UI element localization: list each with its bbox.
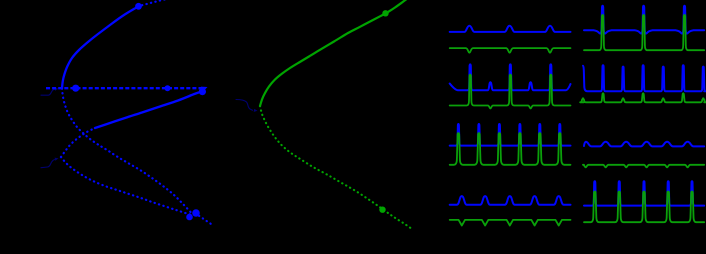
left panel: lower fold lower arm (dotted) — [61, 157, 192, 215]
trace panel row4 right: blue trace with tall narrow spikes — [584, 181, 704, 205]
left panel: marker at end of rising line — [199, 88, 206, 95]
left panel: bottom marker (right of pair) — [192, 209, 200, 217]
left panel: squiggle annotation arrow to lower fold — [41, 160, 55, 168]
left panel: dotted branch above upper marker — [142, 0, 178, 5]
middle panel: green unstable branch (dotted) — [260, 106, 412, 229]
trace panel row3 right: blue trace small oscillations — [584, 142, 704, 147]
trace panel row2 right: green trace with alternating bumps — [580, 93, 706, 102]
left panel: solid rising line continuation with arrow — [95, 92, 201, 128]
left panel: squiggle annotation arrow to upper fold — [41, 89, 55, 95]
left panel: dotted unstable branch from upper fold — [62, 89, 191, 213]
trace panel row1 left: green trace with small notches — [450, 48, 571, 53]
trace panel row4 left: green trace with V notches — [450, 220, 571, 226]
left panel: upper branch marker — [135, 3, 142, 10]
left panel: lower fold upper arm (dotted near fold) — [61, 128, 95, 157]
trace panel row4 left: blue trace with rounded bumps — [450, 196, 571, 205]
left panel: dotted tail below bottom markers — [199, 216, 214, 226]
trace panel row1 right: blue trace with tall narrow spikes and dips — [584, 6, 704, 34]
trace panel row2 right: blue trace fast spiking — [583, 65, 706, 91]
middle panel: squiggle annotation arrow to green fold — [236, 100, 253, 111]
middle panel: marker on green lower branch — [379, 207, 385, 213]
trace panel row3 left: blue trace fast thin spikes — [450, 124, 571, 146]
left panel: bottom marker (left of pair) — [186, 214, 193, 221]
left panel: marker on dashed line (left) — [72, 85, 79, 92]
trace panel row2 left: green trace with spikes and small notches — [450, 75, 571, 109]
left panel: upper stable branch (solid blue) — [62, 6, 139, 88]
trace panel row1 left: blue trace with small bumps — [450, 26, 571, 32]
trace panel row4 right: green trace with tall spikes — [584, 192, 704, 223]
trace panel row3 right: green nearly flat trace with tiny dips — [583, 165, 704, 168]
left panel: marker on dashed line (middle) — [165, 85, 171, 91]
trace panel row1 right: green trace with tall spikes — [584, 15, 704, 50]
trace panel row3 left: green trace with wide tall spikes — [450, 133, 571, 165]
middle panel: marker on green upper branch — [382, 10, 388, 16]
trace panel row2 left: blue trace with tall spikes and subthreshold bumps — [450, 64, 571, 90]
left panel: horizontal dashed line — [46, 87, 205, 89]
middle panel: green stable branch (solid) — [260, 0, 406, 106]
